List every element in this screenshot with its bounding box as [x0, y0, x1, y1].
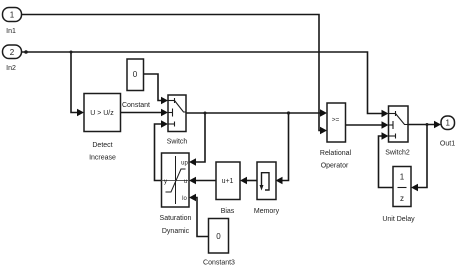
svg-text:lo: lo [182, 196, 187, 202]
svg-text:Unit Delay: Unit Delay [382, 216, 415, 223]
svg-text:Operator: Operator [321, 163, 349, 170]
svg-text:u: u [184, 179, 187, 185]
svg-text:u+1: u+1 [222, 178, 234, 185]
svg-text:Dynamic: Dynamic [162, 228, 190, 235]
svg-text:U > U/z: U > U/z [90, 110, 114, 117]
svg-text:0: 0 [216, 232, 221, 241]
svg-text:Increase: Increase [89, 155, 116, 162]
svg-text:In1: In1 [6, 28, 16, 35]
svg-text:Constant3: Constant3 [203, 260, 235, 267]
svg-text:0: 0 [133, 70, 138, 79]
svg-text:1: 1 [445, 119, 450, 128]
svg-text:Switch2: Switch2 [385, 150, 410, 157]
svg-text:Saturation: Saturation [160, 215, 192, 222]
svg-text:In2: In2 [6, 65, 16, 72]
svg-text:>=: >= [332, 117, 340, 124]
svg-text:Memory: Memory [254, 208, 280, 215]
svg-text:Constant: Constant [122, 102, 150, 109]
svg-text:Out1: Out1 [440, 141, 455, 148]
svg-text:Detect: Detect [92, 142, 112, 149]
svg-text:Bias: Bias [221, 208, 235, 215]
svg-text:2: 2 [10, 48, 15, 57]
svg-text:1: 1 [10, 11, 15, 20]
svg-text:z: z [400, 194, 404, 203]
svg-text:1: 1 [400, 173, 405, 182]
svg-text:up: up [181, 161, 188, 167]
svg-text:Relational: Relational [320, 150, 352, 157]
svg-text:Switch: Switch [167, 139, 188, 146]
